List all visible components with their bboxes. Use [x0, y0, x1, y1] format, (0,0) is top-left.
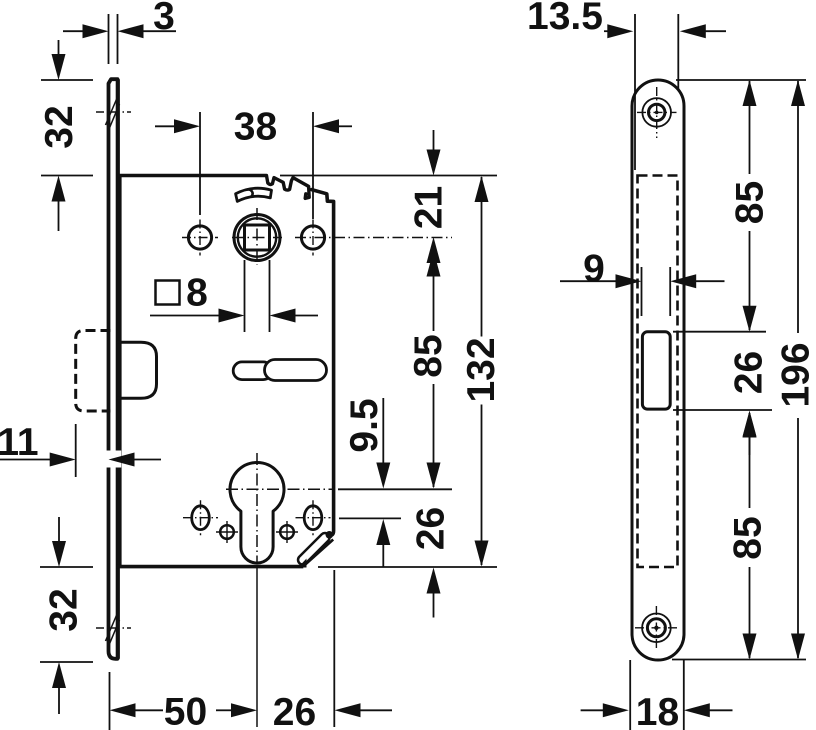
svg-text:3: 3 — [153, 0, 175, 38]
svg-text:196: 196 — [775, 342, 816, 407]
svg-text:38: 38 — [234, 106, 277, 149]
svg-text:9.5: 9.5 — [343, 398, 386, 452]
svg-text:85: 85 — [729, 181, 772, 224]
svg-text:26: 26 — [410, 507, 453, 550]
svg-text:85: 85 — [407, 334, 450, 377]
svg-text:132: 132 — [460, 337, 503, 402]
svg-text:32: 32 — [38, 105, 81, 148]
svg-text:9: 9 — [583, 248, 605, 291]
svg-text:26: 26 — [273, 691, 316, 730]
svg-text:18: 18 — [636, 691, 679, 730]
svg-text:50: 50 — [164, 691, 207, 730]
svg-text:13.5: 13.5 — [527, 0, 603, 38]
svg-text:85: 85 — [727, 516, 770, 559]
svg-text:11: 11 — [0, 421, 39, 464]
svg-text:26: 26 — [728, 351, 771, 394]
svg-text:21: 21 — [408, 186, 451, 229]
svg-text:32: 32 — [43, 588, 86, 631]
svg-text:8: 8 — [186, 272, 208, 315]
